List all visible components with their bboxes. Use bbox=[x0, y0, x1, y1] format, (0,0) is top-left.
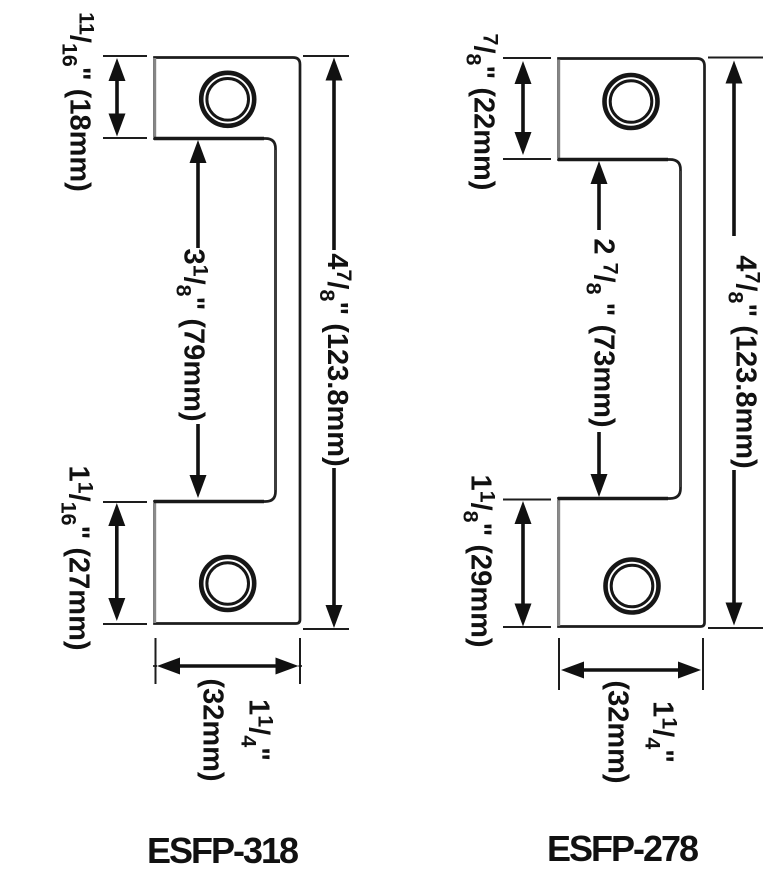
left edge of bottom tab (grey scan stroke) bbox=[153, 502, 156, 623]
extension line top-left lower bbox=[503, 158, 551, 160]
left edge of top tab (grey scan stroke) bbox=[557, 60, 560, 160]
dimension arrow 4 7/8" overall height (lower part) bbox=[326, 468, 343, 628]
svg-text:11/4": 11/4" bbox=[641, 701, 682, 763]
top screw hole (outer ring) bbox=[201, 73, 254, 126]
bottom screw hole (inner ring) bbox=[207, 563, 249, 605]
svg-text:ESFP-278: ESFP-278 bbox=[547, 828, 698, 869]
left edge of bottom tab (grey scan stroke) bbox=[557, 499, 560, 626]
dimension arrow 1 1/4" width bbox=[561, 662, 701, 679]
extension line top-right bbox=[708, 57, 763, 59]
extension line bottom width right bbox=[702, 638, 704, 690]
svg-text:11/16" (27mm): 11/16" (27mm) bbox=[57, 465, 98, 650]
extension line bottom-left upper bbox=[503, 499, 551, 501]
dimension arrow 7/8" tab height bbox=[515, 61, 532, 155]
notch lower step line (heavy) bbox=[154, 500, 264, 504]
extension line bottom-right bbox=[303, 628, 349, 630]
faceplate outline ESFP-318 bbox=[155, 58, 301, 624]
dimension arrow 3 1/8" notch height (upper part) bbox=[190, 140, 207, 248]
top screw hole (outer ring) bbox=[605, 75, 658, 128]
dimension arrow 1 1/16" bottom tab height bbox=[108, 503, 125, 621]
svg-text:(32mm): (32mm) bbox=[602, 680, 634, 783]
extension line bottom width left bbox=[155, 638, 157, 684]
extension line top-left upper bbox=[503, 57, 551, 59]
dimension arrow 4 7/8" overall height (lower part) bbox=[726, 470, 743, 626]
bottom screw hole (outer ring) bbox=[201, 557, 254, 610]
dimension arrow 4 7/8" overall height (upper part) bbox=[326, 58, 343, 251]
notch upper step line (heavy) bbox=[558, 158, 668, 162]
top screw hole (inner ring) bbox=[207, 79, 249, 121]
dimension arrow 1 1/8" bottom tab height bbox=[515, 501, 532, 627]
extension line bottom width right bbox=[299, 638, 301, 684]
extension line top-left lower bbox=[103, 137, 147, 139]
notch upper step line (heavy) bbox=[154, 137, 264, 141]
svg-text:47/8" (123.8mm): 47/8" (123.8mm) bbox=[315, 253, 356, 466]
dimension arrow 11/16" tab height bbox=[109, 58, 126, 137]
dimension arrow 4 7/8" overall height (upper part) bbox=[726, 61, 743, 237]
extension line top-left upper bbox=[103, 55, 147, 57]
svg-text:47/8" (123.8mm): 47/8" (123.8mm) bbox=[724, 255, 765, 468]
svg-text:(32mm): (32mm) bbox=[197, 678, 229, 781]
svg-text:11/4": 11/4" bbox=[237, 699, 278, 761]
dimension arrow 3 1/8" notch height (lower part) bbox=[190, 424, 207, 498]
notch inner vertical (soft) bbox=[274, 150, 277, 490]
svg-text:ESFP-318: ESFP-318 bbox=[147, 830, 298, 871]
dimension arrow 2 7/8" notch height (upper part) bbox=[591, 161, 608, 230]
notch inner vertical (soft) bbox=[679, 171, 682, 487]
dimension arrow 2 7/8" notch height (lower part) bbox=[591, 432, 608, 497]
bottom screw hole (inner ring) bbox=[611, 565, 653, 607]
extension line bottom-right bbox=[708, 627, 763, 629]
left edge of top tab (grey scan stroke) bbox=[153, 58, 156, 138]
extension line bottom width left bbox=[558, 638, 560, 690]
top screw hole (inner ring) bbox=[610, 81, 652, 123]
extension line bottom-left upper bbox=[103, 501, 147, 503]
bottom screw hole (outer ring) bbox=[606, 560, 659, 613]
notch lower step line (heavy) bbox=[558, 497, 668, 501]
dimension arrow 1 1/4" width bbox=[153, 658, 302, 675]
svg-text:11/16" (18mm): 11/16" (18mm) bbox=[58, 12, 99, 192]
faceplate outline ESFP-278 bbox=[559, 59, 705, 627]
extension line bottom-left lower bbox=[103, 623, 147, 625]
extension line bottom-left lower bbox=[503, 626, 551, 628]
extension line top-right bbox=[303, 55, 349, 57]
